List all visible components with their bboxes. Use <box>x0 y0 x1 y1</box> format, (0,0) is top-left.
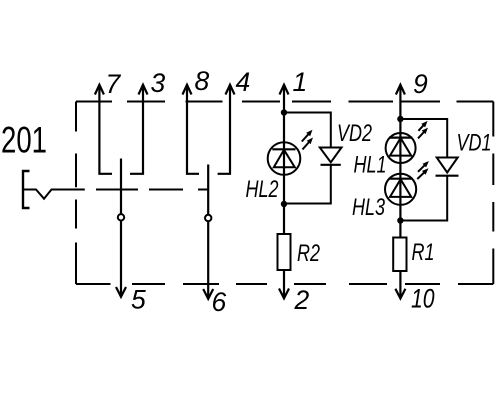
label 6 <box>212 287 227 317</box>
diode VD1 branch wires <box>400 119 447 221</box>
terminal 2 wire <box>279 270 289 298</box>
terminal 9 wire <box>396 85 405 238</box>
svg-text:8: 8 <box>195 66 210 96</box>
switch S1 contact terminal 7 <box>95 85 112 174</box>
terminal 1 wire <box>280 85 289 235</box>
label HL1 <box>354 152 387 178</box>
label R1 <box>412 240 435 266</box>
svg-text:6: 6 <box>212 287 227 317</box>
node junction bottom circuit1 <box>281 201 287 207</box>
dashed border top <box>76 101 493 103</box>
connector plug label 201 <box>1 118 47 160</box>
switch S1 contact terminal 3 <box>130 85 148 174</box>
svg-text:3: 3 <box>151 68 166 98</box>
label R2 <box>297 241 320 267</box>
svg-text:5: 5 <box>131 285 146 315</box>
dashed border bottom <box>76 283 493 285</box>
resistor R2 <box>278 234 291 270</box>
svg-text:R1: R1 <box>412 240 435 266</box>
resistor R1 <box>393 238 406 272</box>
LED HL1 <box>386 133 416 163</box>
svg-text:201: 201 <box>1 118 47 160</box>
svg-text:VD1: VD1 <box>457 130 492 156</box>
label 2 <box>294 285 310 315</box>
switch S2 pole to terminal 6 <box>203 165 213 299</box>
label VD1 <box>457 130 492 156</box>
LED HL1 emission arrows <box>418 121 428 138</box>
node junction top circuit1 <box>281 109 287 115</box>
terminal 10 wire <box>395 271 405 299</box>
label 4 <box>236 67 251 97</box>
svg-text:HL3: HL3 <box>352 195 385 221</box>
label 9 <box>413 69 428 99</box>
wire with break symbol from connector <box>23 190 85 199</box>
dashed border right <box>492 102 494 285</box>
diode VD2 branch wires <box>284 113 331 204</box>
LED HL2 emission arrows <box>302 130 313 150</box>
mechanical linkage dashed line <box>96 189 209 191</box>
svg-text:1: 1 <box>293 67 308 97</box>
node junction bottom circuit2 <box>397 217 403 223</box>
label 7 <box>106 69 122 99</box>
label 1 <box>293 67 308 97</box>
diode VD1 <box>436 158 459 176</box>
label 10 <box>411 284 435 314</box>
connector bracket X1 <box>23 171 30 208</box>
label HL2 <box>246 177 279 203</box>
label 3 <box>151 68 166 98</box>
label 5 <box>131 285 146 315</box>
diode VD2 <box>320 148 342 165</box>
LED HL2 <box>268 142 301 175</box>
label HL3 <box>352 195 385 221</box>
LED HL3 <box>385 174 416 205</box>
switch S2 contact terminal 8 <box>183 85 200 174</box>
switch S2 contact terminal 4 <box>218 85 235 174</box>
svg-text:HL1: HL1 <box>354 152 387 178</box>
svg-text:9: 9 <box>413 69 428 99</box>
svg-text:HL2: HL2 <box>246 177 279 203</box>
svg-text:4: 4 <box>236 67 251 97</box>
switch S1 pole to terminal 5 <box>116 159 126 297</box>
svg-text:2: 2 <box>294 285 310 315</box>
svg-text:VD2: VD2 <box>337 121 372 147</box>
label 8 <box>195 66 210 96</box>
LED HL3 emission arrows <box>417 161 429 179</box>
label VD2 <box>337 121 372 147</box>
node junction top circuit2 <box>397 116 403 122</box>
svg-text:7: 7 <box>106 69 122 99</box>
svg-text:10: 10 <box>411 284 435 314</box>
svg-text:R2: R2 <box>297 241 320 267</box>
dashed border left <box>75 102 77 285</box>
